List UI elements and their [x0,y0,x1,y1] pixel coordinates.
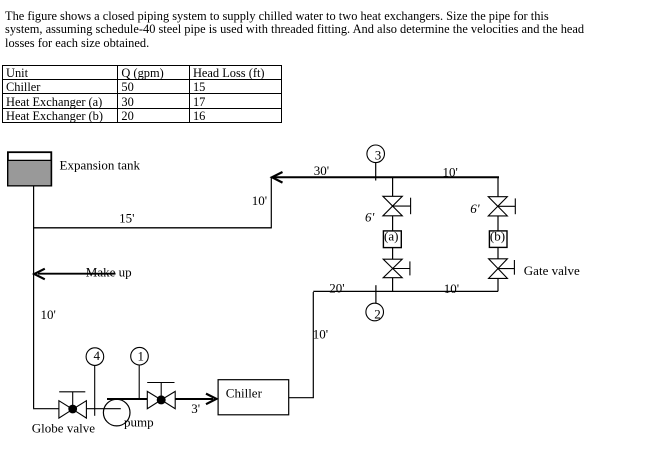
valve A2 (heat exchanger a outlet) [383,259,410,278]
gauge line 1 [138,365,140,398]
svg-text:pump: pump [124,414,154,429]
svg-text:6': 6' [470,201,480,216]
svg-text:Make up: Make up [86,264,132,279]
svg-text:10': 10' [41,307,56,322]
svg-text:10': 10' [444,281,459,296]
make-up arrow shaft [38,273,116,275]
pipe: tank outlet vertical [33,186,35,408]
pipe: chiller riser (10') [312,292,314,398]
svg-text:2: 2 [374,307,381,322]
pipe: branch a vertical [392,177,394,291]
pipe: bottom branch header [313,290,498,292]
pipe: return riser [270,177,272,229]
circle gauge 2 [366,303,384,321]
svg-text:10': 10' [313,326,328,341]
chiller box [218,380,289,415]
arrowhead: into chiller pointing right [206,394,216,405]
svg-text:10': 10' [443,164,458,179]
circle gauge 4 [86,348,104,366]
pump circle [103,399,130,426]
box: heat exchanger (a) [383,229,401,248]
valve B1 (heat exchanger b inlet) [488,197,515,216]
box: heat exchanger (b) [489,229,507,248]
svg-text:Globe valve: Globe valve [32,420,95,435]
circle gauge 3 [367,145,385,163]
expansion tank [8,152,51,185]
svg-text:1: 1 [138,348,145,363]
svg-text:10': 10' [252,193,267,208]
gauge line 4 [94,365,96,415]
svg-text:15': 15' [119,211,134,226]
svg-text:6': 6' [365,210,375,225]
svg-text:3: 3 [375,148,382,163]
pipe: top main (thick) [273,176,499,178]
valve B2 (heat exchanger b outlet) [489,259,515,279]
globe valve [59,392,87,418]
svg-text:Expansion tank: Expansion tank [60,158,141,173]
arrowhead: make-up pointing left [34,269,45,280]
tick: node 3 stem [375,163,377,181]
svg-text:20': 20' [329,280,344,295]
valve A1 (heat exchanger a inlet) [383,196,411,216]
pipe: suction line (tank to pump) [33,408,121,410]
svg-text:Chiller: Chiller [226,386,263,401]
svg-text:Gate valve: Gate valve [524,263,580,278]
svg-text:(b): (b) [490,229,505,244]
svg-text:30': 30' [314,163,329,178]
svg-text:3': 3' [191,401,200,416]
pipe: pump discharge (thick) [107,398,213,400]
pipe: return horizontal 15' [33,227,271,229]
svg-text:(a): (a) [384,229,398,244]
arrowhead: top pipe pointing left [272,172,283,183]
pipe: chiller outlet horizontal [289,397,314,399]
pipe: branch b vertical [497,177,499,291]
tick: node 2 stem [375,285,377,303]
svg-text:4: 4 [94,348,101,363]
valve 1 (pump discharge valve) [147,383,175,409]
circle gauge 1 [131,347,149,365]
